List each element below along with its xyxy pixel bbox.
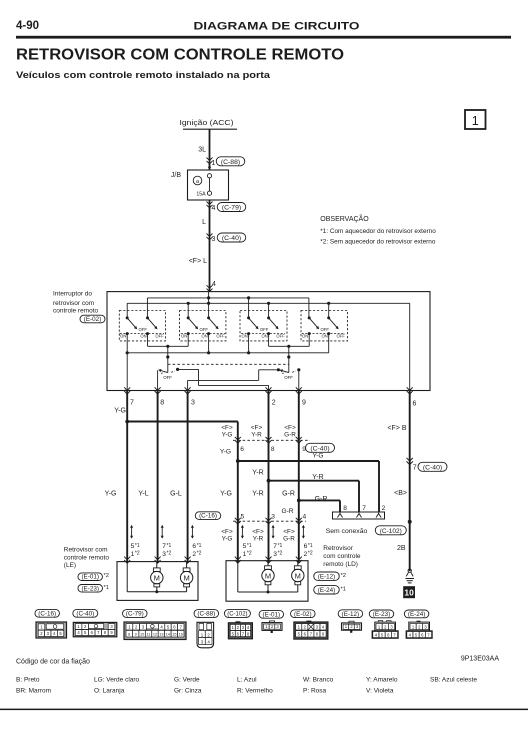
wire internal supply bus lower bbox=[127, 302, 410, 304]
svg-text:12: 12 bbox=[153, 633, 157, 637]
svg-text:controle remoto: controle remoto bbox=[64, 554, 110, 561]
wire 3L from ignition bbox=[198, 129, 209, 170]
svg-text:*2: *2 bbox=[308, 550, 313, 556]
svg-text:3: 3 bbox=[191, 400, 195, 407]
connector C-16 pin layout bbox=[35, 609, 67, 638]
right mirror unit Retrovisor com controle remoto (LD) bbox=[226, 545, 361, 601]
svg-text:Retrovisor: Retrovisor bbox=[323, 545, 353, 552]
svg-text:BR: Marrom: BR: Marrom bbox=[16, 688, 51, 695]
svg-text:controle remoto: controle remoto bbox=[53, 308, 99, 315]
wire S2 contact to common line bbox=[207, 334, 210, 355]
wire right selector to pin 9 bbox=[297, 368, 300, 390]
motor direction arrows bbox=[130, 525, 305, 539]
svg-text:G: Verde: G: Verde bbox=[174, 677, 200, 684]
svg-text:R: Vermelho: R: Vermelho bbox=[237, 688, 273, 695]
svg-text:(LE): (LE) bbox=[64, 562, 76, 569]
svg-text:*1: *1 bbox=[278, 543, 283, 549]
switch pin 4 input bbox=[207, 281, 217, 292]
svg-text:Y-G: Y-G bbox=[312, 453, 323, 460]
svg-text:1: 1 bbox=[472, 114, 479, 128]
svg-text:W: Branco: W: Branco bbox=[303, 677, 334, 684]
svg-text:11: 11 bbox=[147, 633, 151, 637]
connector C-40 pin 7 (in-line, right wire) bbox=[407, 458, 448, 472]
svg-text:*1: Com aquecedor do retroviso: *1: Com aquecedor do retrovisor externo bbox=[320, 228, 436, 235]
connector C-40 line (pins 6 8 9) bbox=[220, 437, 335, 460]
svg-text:G-R: G-R bbox=[315, 496, 328, 503]
svg-text:Y: Amarelo: Y: Amarelo bbox=[366, 677, 398, 684]
svg-text:com controle: com controle bbox=[323, 553, 361, 560]
svg-text:10: 10 bbox=[404, 588, 414, 598]
svg-text:ON: ON bbox=[140, 334, 146, 339]
connector E-24 label *1 bbox=[314, 586, 346, 595]
svg-text:9: 9 bbox=[302, 400, 306, 407]
svg-text:*2: *2 bbox=[247, 550, 252, 556]
note OBSERVAÇÃO bbox=[320, 214, 436, 246]
svg-text:(E-02): (E-02) bbox=[84, 316, 102, 323]
svg-text:7: 7 bbox=[130, 400, 134, 407]
svg-text:(C-40): (C-40) bbox=[310, 446, 329, 453]
wire S1-S2 link to left selector bbox=[148, 334, 189, 348]
svg-text:L: L bbox=[202, 219, 206, 226]
svg-text:ON: ON bbox=[302, 334, 308, 339]
svg-text:M: M bbox=[265, 571, 271, 580]
document number 9P13E03AA bbox=[461, 656, 499, 663]
connector C-40 pin 3 (in-line) bbox=[207, 233, 246, 243]
svg-text:OFF: OFF bbox=[284, 375, 293, 380]
svg-text:Y-G: Y-G bbox=[114, 408, 126, 415]
connector E-23 label *1 bbox=[78, 585, 109, 593]
svg-text:2: 2 bbox=[272, 400, 276, 407]
motor M2 left mirror horizontal bbox=[180, 562, 192, 592]
selector switch left (OFF) bbox=[158, 346, 175, 380]
svg-text:SB: Azul celeste: SB: Azul celeste bbox=[430, 677, 477, 684]
switch unit S4 (ON/OFF) bbox=[301, 311, 348, 341]
page marker 1 bbox=[465, 110, 486, 129]
svg-text:*2: *2 bbox=[341, 573, 346, 579]
svg-text:*2: *2 bbox=[135, 550, 140, 556]
switch box E-02 Interruptor do retrovisor com controle remoto bbox=[53, 291, 430, 391]
svg-text:Y-R: Y-R bbox=[312, 474, 323, 481]
svg-text:(E-23): (E-23) bbox=[81, 585, 99, 592]
switch box output pins 7 8 3 2 9 6 bbox=[124, 387, 416, 407]
svg-text:*1: *1 bbox=[197, 543, 202, 549]
node Ignição (ACC) supply bbox=[180, 120, 238, 129]
svg-text:13: 13 bbox=[159, 633, 163, 637]
svg-text:M: M bbox=[295, 571, 301, 580]
svg-text:ON: ON bbox=[181, 334, 187, 339]
connector E-23 pin layout bbox=[369, 610, 398, 638]
svg-text:8: 8 bbox=[271, 446, 275, 453]
wire left selector to pin 8 bbox=[157, 370, 159, 390]
svg-text:8: 8 bbox=[160, 400, 164, 407]
svg-text:Ignição (ACC): Ignição (ACC) bbox=[180, 120, 234, 127]
svg-text:<F>: <F> bbox=[283, 528, 295, 535]
switch unit S1 (ON/OFF) bbox=[119, 311, 165, 341]
svg-text:4: 4 bbox=[212, 281, 216, 288]
svg-text:(C-40): (C-40) bbox=[222, 235, 241, 242]
svg-text:(E-12): (E-12) bbox=[342, 611, 360, 618]
svg-text:Gr: Cinza: Gr: Cinza bbox=[174, 688, 202, 695]
svg-text:8: 8 bbox=[343, 505, 347, 512]
wire S4 contact to common line bbox=[328, 334, 330, 353]
diagram title bbox=[16, 46, 344, 80]
svg-text:10: 10 bbox=[140, 633, 144, 637]
svg-text:G-R: G-R bbox=[282, 491, 295, 498]
motor M1 left mirror vertical bbox=[151, 562, 163, 592]
svg-text:G-R: G-R bbox=[283, 535, 295, 542]
svg-text:Interruptor do: Interruptor do bbox=[53, 291, 92, 298]
wire S3 contact to common line bbox=[247, 334, 250, 355]
svg-text:(C-16): (C-16) bbox=[38, 610, 56, 617]
svg-text:(E-01): (E-01) bbox=[263, 611, 281, 618]
svg-text:Veículos com controle remoto i: Veículos com controle remoto instalado n… bbox=[16, 70, 271, 80]
svg-text:<F>: <F> bbox=[252, 528, 264, 535]
svg-text:1: 1 bbox=[212, 160, 216, 167]
svg-text:OFF: OFF bbox=[155, 334, 164, 339]
svg-text:(E-23): (E-23) bbox=[373, 611, 391, 618]
connector E-12 pin layout bbox=[338, 610, 363, 633]
wire label L bbox=[202, 219, 206, 226]
svg-text:Y-G: Y-G bbox=[222, 431, 233, 438]
svg-text:3: 3 bbox=[212, 236, 216, 243]
svg-text:*2: Sem aquecedor do retroviso: *2: Sem aquecedor do retrovisor externo bbox=[320, 239, 436, 246]
svg-text:Y-R: Y-R bbox=[252, 469, 263, 476]
svg-text:4-90: 4-90 bbox=[16, 20, 39, 32]
svg-text:9P13E03AA: 9P13E03AA bbox=[461, 656, 499, 663]
svg-text:OFF: OFF bbox=[139, 327, 148, 332]
svg-text:ON: ON bbox=[261, 334, 267, 339]
svg-text:(C-16): (C-16) bbox=[199, 513, 217, 520]
switch unit S3 (ON/OFF) bbox=[240, 311, 287, 341]
svg-text:Código de cor da fiação: Código de cor da fiação bbox=[16, 659, 90, 666]
wire Y-G branch to C-102 pin 2 bbox=[236, 459, 379, 512]
svg-text:ON: ON bbox=[201, 334, 207, 339]
ground point 10 bbox=[403, 569, 415, 598]
svg-text:6: 6 bbox=[240, 446, 244, 453]
svg-text:OFF: OFF bbox=[337, 334, 346, 339]
wire labels (F) variant above C-40 bbox=[221, 424, 296, 438]
connector C-88 pin layout bbox=[194, 610, 219, 648]
svg-text:OFF: OFF bbox=[276, 334, 285, 339]
svg-text:G-R: G-R bbox=[281, 508, 293, 515]
fuse 15A bbox=[196, 174, 211, 198]
connector E-02 pin layout bbox=[291, 610, 328, 639]
svg-text:DIAGRAMA DE CIRCUITO: DIAGRAMA DE CIRCUITO bbox=[194, 21, 361, 33]
wire label (F) L bbox=[189, 258, 207, 265]
svg-text:(C-88): (C-88) bbox=[221, 159, 240, 166]
connector C-40 pin layout bbox=[73, 609, 117, 636]
wire B pin 6 to ground bbox=[387, 391, 411, 572]
wire G-R branch to C-102 pin 8 bbox=[297, 496, 340, 512]
svg-text:(E-01): (E-01) bbox=[81, 574, 99, 581]
wire Y-R pin 2 to right mirror bbox=[252, 391, 268, 564]
svg-text:*2: *2 bbox=[167, 550, 172, 556]
svg-text:Y-R: Y-R bbox=[252, 491, 263, 498]
svg-text:14: 14 bbox=[166, 633, 170, 637]
svg-text:4: 4 bbox=[303, 514, 307, 521]
svg-text:3L: 3L bbox=[198, 147, 206, 154]
svg-text:3: 3 bbox=[271, 514, 275, 521]
wire right mirror common return bbox=[238, 561, 298, 594]
svg-text:*1: *1 bbox=[167, 543, 172, 549]
selector mechanical link (dashed) bbox=[168, 363, 289, 365]
connector C-79 pin 4 (in-line) bbox=[207, 202, 246, 213]
svg-text:(E-02): (E-02) bbox=[294, 611, 312, 618]
svg-text:*1: *1 bbox=[104, 585, 109, 591]
connector C-79 pin layout bbox=[123, 610, 186, 640]
svg-text:Y-G: Y-G bbox=[222, 535, 233, 542]
svg-text:Y-G: Y-G bbox=[220, 491, 232, 498]
wire internal supply bus upper bbox=[147, 297, 309, 299]
switch unit S2 (ON/OFF) bbox=[180, 311, 226, 341]
svg-text:Retrovisor com: Retrovisor com bbox=[64, 547, 108, 554]
svg-text:*2: *2 bbox=[104, 573, 109, 579]
svg-text:*2: *2 bbox=[278, 550, 283, 556]
svg-text:P: Rosa: P: Rosa bbox=[303, 688, 327, 695]
svg-text:LG: Verde claro: LG: Verde claro bbox=[94, 677, 140, 684]
svg-text:(C-102): (C-102) bbox=[380, 528, 402, 535]
svg-text:OFF: OFF bbox=[216, 334, 225, 339]
svg-text:(C-88): (C-88) bbox=[197, 611, 215, 618]
wire labels (F) variant below C-16 bbox=[221, 528, 295, 542]
no-connection block C-102 bbox=[326, 505, 407, 535]
left mirror unit Retrovisor com controle remoto (LE) bbox=[64, 547, 198, 601]
svg-text:(E-24): (E-24) bbox=[408, 611, 426, 618]
svg-text:2: 2 bbox=[382, 505, 386, 512]
wire common contact line bbox=[127, 352, 329, 354]
wire G-L pin 3 to left mirror bbox=[170, 391, 187, 564]
svg-text:ON: ON bbox=[241, 334, 247, 339]
svg-text:16: 16 bbox=[179, 633, 183, 637]
svg-text:*1: *1 bbox=[135, 543, 140, 549]
connector E-01 pin layout bbox=[259, 610, 284, 633]
svg-text:retrovisor com: retrovisor com bbox=[53, 300, 94, 307]
svg-text:L: Azul: L: Azul bbox=[237, 677, 257, 684]
svg-text:9: 9 bbox=[135, 633, 137, 637]
svg-text:O: Laranja: O: Laranja bbox=[94, 688, 125, 695]
wire S3-S4 link to right selector bbox=[269, 334, 310, 348]
svg-text:M: M bbox=[154, 573, 160, 582]
selector switch right (OFF) bbox=[279, 346, 295, 380]
svg-text:G-R: G-R bbox=[284, 431, 296, 438]
svg-text:(E-12): (E-12) bbox=[318, 574, 336, 581]
svg-text:5: 5 bbox=[241, 514, 245, 521]
svg-text:(C-40): (C-40) bbox=[423, 465, 442, 472]
svg-text:B: Preto: B: Preto bbox=[16, 677, 40, 684]
junction block J/B bbox=[171, 167, 229, 200]
svg-text:(C-40): (C-40) bbox=[76, 610, 94, 617]
connector E-12 label *2 bbox=[314, 572, 346, 581]
svg-text:<F>: <F> bbox=[221, 528, 233, 535]
connector C-88 pin 1 (in-line) bbox=[207, 157, 245, 167]
svg-text:6: 6 bbox=[413, 401, 417, 408]
svg-text:OFF: OFF bbox=[321, 327, 330, 332]
wire bus to pin 6 bbox=[409, 303, 411, 390]
svg-text:(C-79): (C-79) bbox=[222, 205, 241, 212]
svg-text:15A: 15A bbox=[196, 192, 206, 198]
svg-text:ON: ON bbox=[322, 334, 328, 339]
svg-text:Y-G: Y-G bbox=[105, 491, 117, 498]
svg-text:G-L: G-L bbox=[170, 491, 182, 498]
svg-text:2B: 2B bbox=[397, 545, 406, 552]
svg-text:(C-79): (C-79) bbox=[126, 611, 144, 618]
wire Y-G pin 7 to left mirror bbox=[105, 391, 128, 564]
wire left mirror common return bbox=[127, 562, 186, 594]
svg-text:J/B: J/B bbox=[171, 172, 181, 179]
svg-text:*2: *2 bbox=[197, 550, 202, 556]
wire color code legend bbox=[0, 659, 528, 711]
page header bbox=[16, 20, 511, 39]
svg-text:8: 8 bbox=[128, 633, 130, 637]
svg-text:M: M bbox=[183, 573, 189, 582]
connector C-16 line (pins 5 3 4) bbox=[195, 508, 306, 524]
svg-text:Sem conexão: Sem conexão bbox=[326, 528, 368, 535]
mirror pin numbers 5*1/1*2 7*1/3*2 6*1/2*2 bbox=[131, 543, 313, 558]
svg-text:Y-R: Y-R bbox=[251, 431, 262, 438]
svg-text:remoto (LD): remoto (LD) bbox=[323, 561, 358, 568]
svg-text:<B>: <B> bbox=[394, 490, 407, 497]
svg-text:V: Violeta: V: Violeta bbox=[366, 688, 394, 695]
svg-text:(E-24): (E-24) bbox=[318, 587, 336, 594]
connector E-01 label *2 bbox=[78, 573, 109, 581]
svg-text:OFF: OFF bbox=[260, 327, 269, 332]
svg-text:ON: ON bbox=[120, 334, 126, 339]
svg-text:OBSERVAÇÃO: OBSERVAÇÃO bbox=[320, 214, 369, 223]
motor M3 right mirror vertical bbox=[262, 561, 274, 592]
svg-text:15: 15 bbox=[172, 633, 176, 637]
svg-text:<F> B: <F> B bbox=[387, 425, 406, 432]
connector E-24 pin layout bbox=[404, 610, 432, 638]
svg-text:Y-G: Y-G bbox=[220, 449, 231, 456]
svg-text:OFF: OFF bbox=[163, 375, 172, 380]
svg-text:*1: *1 bbox=[341, 587, 346, 593]
svg-text:*1: *1 bbox=[247, 543, 252, 549]
svg-text:7: 7 bbox=[362, 505, 366, 512]
svg-text:*1: *1 bbox=[308, 543, 313, 549]
wire Y-L pin 8 to left mirror bbox=[138, 391, 157, 564]
svg-text:Y-R: Y-R bbox=[253, 535, 264, 542]
wire bus drops to switch pivots bbox=[127, 296, 330, 318]
wire pin4 feed to buses bbox=[207, 292, 210, 318]
svg-text:<F>: <F> bbox=[221, 424, 233, 431]
svg-text:(C-102): (C-102) bbox=[227, 612, 247, 618]
svg-text:<F>: <F> bbox=[251, 424, 263, 431]
wire S1 contact to pin 7 bbox=[126, 334, 129, 391]
wire Y-G branch to right mirror bbox=[125, 420, 238, 563]
svg-text:4: 4 bbox=[212, 205, 216, 212]
wire right selector left contact to pin 3 bbox=[188, 368, 280, 390]
wire L to switch bbox=[209, 200, 211, 292]
wire G-R pin 9 to right mirror bbox=[282, 391, 299, 564]
mirror connector entries (chevrons) bbox=[124, 557, 302, 564]
svg-text:<F> L: <F> L bbox=[189, 258, 207, 265]
wire Y-R branch to C-102 pin 7 bbox=[267, 474, 359, 512]
svg-text:7: 7 bbox=[413, 465, 417, 472]
svg-text:OFF: OFF bbox=[200, 327, 209, 332]
wire left selector right contact to pin 2 bbox=[176, 368, 269, 391]
svg-text:RETROVISOR COM CONTROLE REMOTO: RETROVISOR COM CONTROLE REMOTO bbox=[16, 46, 344, 63]
svg-text:<F>: <F> bbox=[284, 424, 296, 431]
motor M4 right mirror horizontal bbox=[292, 561, 304, 592]
connector C-102 pin layout bbox=[224, 610, 252, 639]
svg-text:Y-L: Y-L bbox=[138, 491, 148, 498]
